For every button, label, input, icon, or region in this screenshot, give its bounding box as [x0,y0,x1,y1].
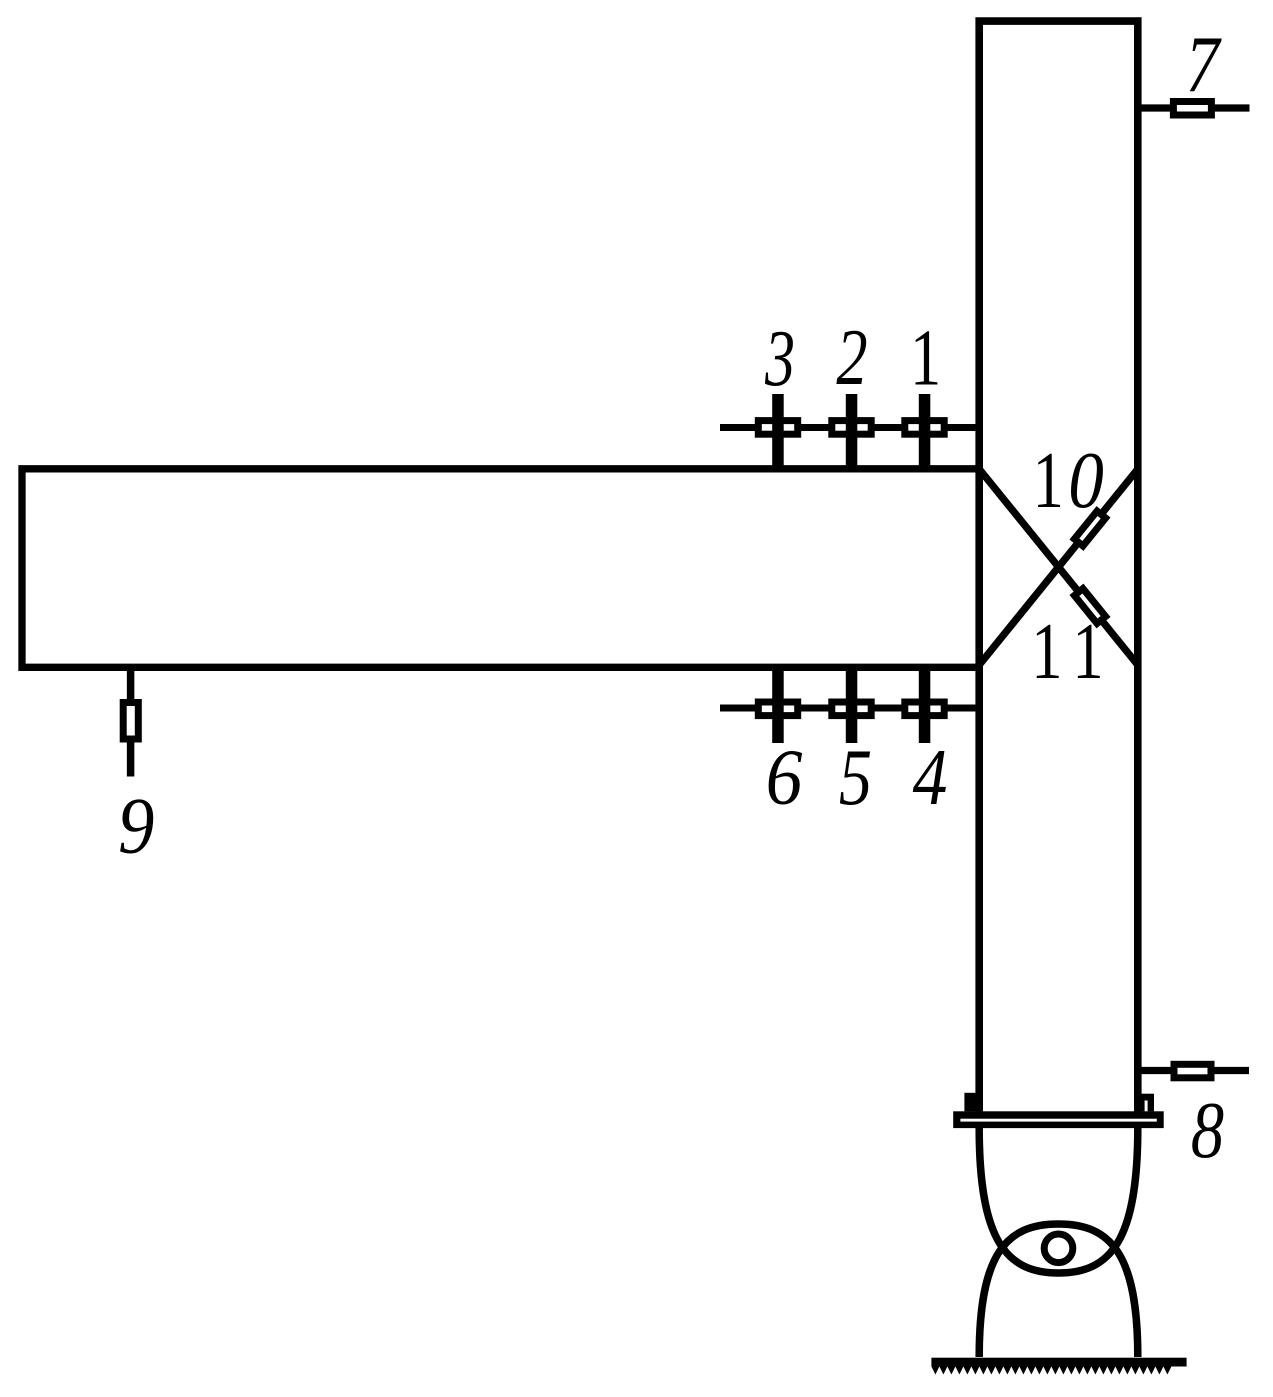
gauge 2 stem [846,394,858,469]
base plate [953,1111,1163,1128]
sensor 9 stem upper [127,667,135,702]
gauge 1 stem [919,394,931,469]
sensor 7 wire [1138,104,1250,111]
svg-text:1: 1 [1072,607,1103,696]
svg-text:8: 8 [1191,1085,1224,1174]
hinge upper bell curve [979,1128,1138,1273]
gauge 4 stem [919,667,931,743]
brace diagonal D1 (top-left to bottom-right) [979,469,1138,665]
displacement gauge 1 body [905,421,944,435]
svg-text:4: 4 [913,734,948,823]
svg-text:2: 2 [836,313,867,402]
displacement gauge 6 body [758,702,797,716]
svg-text:1: 1 [910,313,941,402]
svg-text:1: 1 [1031,607,1062,696]
svg-text:0: 0 [1068,437,1104,525]
ground hatching [931,1367,1171,1375]
strain gauge 10 on diagonal D2 [1074,511,1105,546]
gauge 6 stem [772,667,784,743]
sensor 8 body [1174,1064,1211,1078]
brace diagonal D2 (bottom-left to top-right) [979,469,1138,665]
sensor 7 body [1173,102,1211,116]
sensor 8 wire [1138,1067,1249,1074]
strain gauge 11 on diagonal D1 [1074,589,1105,624]
displacement gauge 5 body [832,702,871,716]
svg-text:5: 5 [839,732,872,821]
base plate white seam [960,1119,1156,1122]
gauge 5 stem [846,667,858,743]
sensor 9 stem lower [127,743,135,777]
bottom sensor wire [720,705,979,712]
base plate right tab notch [1145,1101,1148,1112]
ground bar [931,1358,1186,1367]
displacement gauge 4 body [905,702,944,716]
base plate left tab [964,1093,983,1112]
gauge 3 stem [772,394,784,469]
top sensor wire [720,424,979,431]
beam (horizontal member) [22,469,979,668]
displacement gauge 2 body [832,421,871,435]
column (vertical member) [979,21,1138,1111]
sensor 9 body [123,703,138,740]
svg-text:6: 6 [766,733,803,821]
displacement gauge 3 body [758,421,797,435]
base plate right tab [1134,1094,1154,1112]
svg-text:1: 1 [1033,436,1064,525]
svg-text:3: 3 [764,315,795,403]
svg-text:7: 7 [1186,20,1222,109]
hinge lower bell curve [979,1224,1138,1357]
hinge pin circle [1044,1234,1073,1263]
svg-text:9: 9 [118,781,154,870]
